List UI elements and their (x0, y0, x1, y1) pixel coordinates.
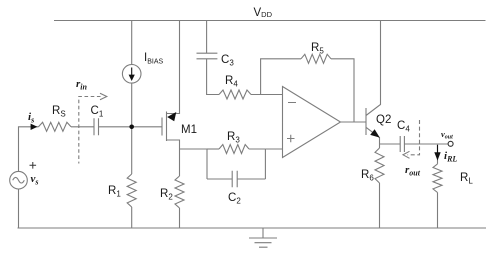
wire minus node up (261, 59, 301, 95)
capacitor C1 (94, 118, 99, 135)
wire gate node to R1 (131, 127, 133, 174)
wire R2 to rail (179, 208, 181, 228)
wire rail to C3 (206, 21, 208, 54)
wire RL branch (437, 144, 439, 164)
wire emitter node to R6 (379, 144, 381, 148)
wire IBIAS to gate node (131, 83, 133, 127)
wire M1 arrow (167, 112, 176, 121)
wire R3 right node to op-amp plus (265, 149, 282, 179)
wire vs to input (19, 127, 39, 172)
resistor R4 (219, 90, 251, 99)
wire M1 source node to R2 (179, 149, 181, 176)
svg-text:M1: M1 (181, 124, 197, 136)
wire Q2 emitter arrow (370, 129, 380, 137)
wire source node to R3 C2 (180, 148, 208, 150)
wire RS to C1 (71, 126, 94, 128)
wire bottom ground rail (18, 227, 487, 229)
wire C1 to gate node (99, 126, 132, 128)
wire R1 to rail (131, 207, 133, 228)
op-amp U1 (283, 87, 341, 158)
current source IBIAS (122, 65, 141, 84)
wire rail to IBIAS (131, 21, 133, 65)
node VDD rail (54, 20, 486, 22)
resistor R3 (207, 148, 219, 150)
wire C3 to R4 (207, 59, 219, 95)
wire op-amp out to Q2 base (341, 121, 367, 123)
ground (249, 228, 277, 247)
resistor R2 (175, 176, 184, 208)
capacitor C3 (197, 53, 218, 59)
wire R4 to op-amp minus (251, 94, 283, 96)
node rin dashed arrow (79, 97, 101, 164)
wire gate node to M1 gate (132, 126, 162, 128)
node rout dashed arrow (408, 120, 420, 155)
wire emitter node to C4 (380, 143, 401, 145)
wire vs to rail (18, 189, 20, 228)
wire R5 to output node (331, 59, 354, 122)
capacitor C4 (400, 136, 404, 152)
wire IBIAS arrow (131, 68, 133, 78)
node vout terminal (448, 141, 453, 146)
svg-text:Q2: Q2 (376, 114, 391, 126)
resistor RS (39, 122, 72, 131)
wire R3 left node down (206, 149, 208, 179)
source vs (10, 171, 28, 189)
transistor Q2 (366, 21, 381, 145)
wire RL to rail (437, 193, 439, 229)
resistor R6 (375, 148, 384, 183)
capacitor C2 (207, 171, 265, 187)
wire is arrow (31, 124, 38, 130)
wire iRL arrow (437, 145, 439, 153)
resistor RL (433, 164, 442, 193)
wire R6 to rail (379, 183, 381, 228)
node gate junction dot (129, 125, 134, 130)
resistor R1 (127, 174, 136, 207)
transistor M1 (162, 21, 180, 150)
wire C4 to vout terminal (404, 143, 448, 145)
node vs plus sign (30, 162, 37, 169)
resistor R5 (301, 54, 331, 63)
